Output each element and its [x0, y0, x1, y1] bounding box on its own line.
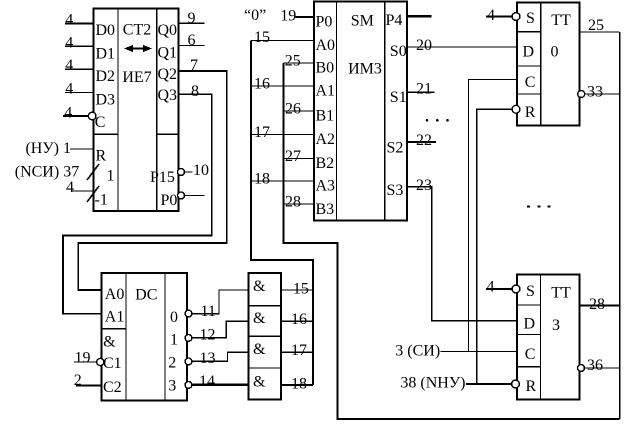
svg-text:P15: P15 — [150, 169, 175, 186]
svg-text:P0: P0 — [316, 14, 333, 31]
svg-text:13: 13 — [200, 350, 216, 367]
svg-text:26: 26 — [285, 101, 301, 118]
svg-text:S2: S2 — [387, 140, 404, 157]
wire clock 3 (СИ) to TT3 C input — [441, 351, 517, 353]
pin label 15 at A0 — [254, 29, 270, 46]
svg-text:1: 1 — [170, 332, 178, 349]
pin label 15 at gate 1 — [293, 280, 309, 297]
svg-text:33: 33 — [587, 84, 603, 101]
svg-text:10: 10 — [193, 162, 209, 179]
wire counter input D0 (pin 4) — [65, 22, 93, 24]
svg-text:14: 14 — [199, 373, 215, 390]
svg-text:R: R — [525, 104, 536, 121]
svg-text:Q0: Q0 — [158, 22, 178, 39]
svg-text:12: 12 — [200, 326, 216, 343]
bus wire right-edge vertical collecting flip-flop outputs — [619, 32, 621, 419]
svg-text:4: 4 — [65, 34, 73, 51]
wire counter input D2 (pin 4) — [65, 68, 93, 70]
svg-text:4: 4 — [65, 81, 73, 98]
pin label 4 at TT3 S — [487, 278, 495, 295]
dynamic-input slash at counter -1 input — [87, 186, 99, 202]
svg-text:16: 16 — [254, 76, 270, 93]
svg-text:B1: B1 — [316, 108, 335, 125]
svg-text:D3: D3 — [96, 91, 116, 108]
adder U2 labels SM / ИМ3 — [348, 12, 382, 77]
decoder output 2 bubble and wire (pin 13) to AND gate 3 — [185, 352, 248, 364]
pin label 36 — [587, 357, 603, 374]
wire adder input A2 (pin 17) — [251, 134, 314, 136]
svg-text:C2: C2 — [103, 379, 122, 396]
svg-text:P4: P4 — [386, 12, 403, 29]
svg-text:C: C — [525, 74, 536, 91]
wire adder input A1 (pin 16) — [251, 85, 314, 87]
svg-text:11: 11 — [201, 303, 216, 320]
wire counter input D3 (pin 4) — [65, 92, 93, 94]
wire AND gate 4 output (pin 18) — [281, 384, 313, 386]
decoder output 0 bubble and wire (pin 11) to AND gate 1 — [185, 290, 248, 317]
svg-text:6: 6 — [188, 32, 196, 49]
wire counter output Q3 (pin 8) routed to decoder input A0 — [63, 94, 212, 313]
svg-text:3 (СИ): 3 (СИ) — [395, 343, 440, 360]
counter U1 СТ2/ИЕ7 block body — [93, 8, 178, 211]
wire adder input A3 (pin 18) — [251, 180, 314, 182]
pin label 19 at C1 — [75, 349, 91, 366]
svg-text:19: 19 — [75, 349, 91, 366]
pin label 16 at A1 — [254, 76, 270, 93]
svg-text:&: & — [253, 278, 266, 295]
wire decoder input C2 (pin 2) — [76, 385, 101, 387]
wire pin 4 to TT0 S input with inversion bubble — [486, 13, 520, 21]
svg-text:A0: A0 — [105, 286, 125, 303]
pin label 33 — [587, 84, 603, 101]
wire adder input B3 (pin 28) — [284, 203, 315, 205]
flip-flop U6 TT 3 block body — [517, 274, 579, 399]
svg-text:D1: D1 — [96, 45, 116, 62]
svg-text:TT: TT — [551, 284, 571, 301]
wire counter input -1 (pin 4) — [72, 190, 93, 192]
svg-text:27: 27 — [285, 148, 301, 165]
svg-text:2: 2 — [74, 372, 82, 389]
wire adder output S1 stub (pin 21) — [407, 91, 435, 93]
svg-text:B0: B0 — [316, 60, 335, 77]
svg-text:17: 17 — [254, 124, 270, 141]
wire adder input B0 (pin 25) — [284, 62, 315, 64]
wire adder output S3 (pin 23) routed to trigger TT3 D input — [407, 187, 517, 321]
svg-text:R: R — [96, 147, 107, 164]
svg-text:ИМ3: ИМ3 — [348, 61, 382, 78]
pin label 18 at A3 — [254, 171, 270, 188]
svg-text:DC: DC — [135, 287, 157, 304]
svg-text:20: 20 — [416, 37, 432, 54]
flip-flop U6 port labels S,D,C,R — [524, 283, 537, 395]
decoder output 1 bubble and wire (pin 12) to AND gate 2 — [185, 321, 248, 341]
bus wire from AND gate outputs up to adder A inputs — [251, 41, 313, 386]
svg-text:4: 4 — [65, 11, 73, 28]
svg-text:A0: A0 — [316, 37, 336, 54]
svg-text:“0”: “0” — [244, 7, 266, 24]
wire counter input C (pin 4) with inversion bubble — [63, 112, 96, 120]
svg-text:SM: SM — [351, 12, 374, 29]
svg-text:A2: A2 — [316, 131, 336, 148]
svg-text:S: S — [526, 10, 535, 27]
wire AND gate 3 output (pin 17) — [281, 351, 313, 353]
svg-text:4: 4 — [64, 105, 72, 122]
wire reset NНУ branch to TT0 R input with inversion bubble — [477, 105, 520, 384]
svg-text:19: 19 — [280, 8, 296, 25]
svg-text:ИЕ7: ИЕ7 — [122, 69, 151, 86]
svg-text:28: 28 — [285, 194, 301, 211]
wire pin 4 to TT3 S input with inversion bubble — [486, 285, 520, 293]
wire TT3 output 28 — [580, 304, 620, 306]
svg-text:4: 4 — [66, 179, 74, 196]
wire adder input A0 (pin 15) — [251, 40, 314, 42]
pin label 28 — [589, 296, 605, 313]
svg-text:&: & — [103, 334, 116, 351]
pin label 6 — [188, 32, 196, 49]
pin label 28 at B3 — [285, 194, 301, 211]
ellipsis dots between TT0 and TT3 — [527, 206, 550, 208]
svg-text:A3: A3 — [316, 178, 336, 195]
flip-flop U5 labels TT and 0 — [551, 12, 572, 60]
pin label 16 at gate 2 — [291, 311, 307, 328]
svg-text:Q1: Q1 — [158, 45, 178, 62]
svg-text:7: 7 — [190, 57, 198, 74]
label 38 (NНУ) — [400, 375, 465, 392]
decoder output 3 bubble and wire (pin 14) to AND gate 4 — [185, 382, 248, 389]
pin label 22 — [416, 132, 432, 149]
pin label 27 at B2 — [285, 148, 301, 165]
pin label 17 at gate 3 — [291, 342, 307, 359]
counter U1 port labels D0-D3, C, R, +1, -1, Q0-Q3, P15, P0 — [95, 22, 178, 209]
svg-text:16: 16 — [291, 311, 307, 328]
svg-text:4: 4 — [487, 278, 495, 295]
svg-text:A1: A1 — [105, 309, 125, 326]
svg-text:&: & — [253, 310, 266, 327]
adder U2 port labels P0,A0,B0,A1,B1,A2,B2,A3,B3,P4,S0,S1,S2,S3 — [316, 12, 407, 218]
wire counter input R from (НУ) 1 — [70, 148, 93, 150]
svg-text:&: & — [253, 341, 266, 358]
svg-text:C1: C1 — [103, 355, 122, 372]
pin label 4 at TT0 S — [487, 7, 495, 24]
flip-flop U5 port labels S,D,C,R — [523, 10, 536, 121]
svg-text:18: 18 — [254, 171, 270, 188]
counter U1 labels СТ2 / ИЕ7 and bidirectional arrow — [122, 22, 152, 87]
svg-text:9: 9 — [188, 10, 196, 27]
pin label 20 — [416, 37, 432, 54]
wire counter output Q2 (pin 7) routed to decoder input A1 — [78, 71, 227, 290]
wire adder output S0 (pin 20) to trigger TT0 D input — [407, 46, 516, 48]
svg-text:СТ2: СТ2 — [123, 22, 151, 39]
pin label 8 — [191, 83, 199, 100]
svg-text:21: 21 — [416, 81, 432, 98]
pin label 12 — [200, 326, 216, 343]
pin label 4 at D2 — [65, 57, 73, 74]
wire AND gate 2 output (pin 16) — [281, 320, 313, 322]
wire adder carry output P4 stub — [407, 15, 432, 17]
svg-text:25: 25 — [285, 53, 301, 70]
pin label 13 — [200, 350, 216, 367]
pin label 18 at gate 4 — [291, 376, 307, 393]
adder U2 SM/ИМ3 block body — [314, 1, 407, 220]
svg-text:Q3: Q3 — [158, 87, 178, 104]
flip-flop U6 labels TT and 3 — [551, 284, 571, 334]
svg-text:C: C — [525, 346, 536, 363]
label 3 (СИ) — [395, 343, 440, 360]
wire adder output S2 stub (pin 22) — [407, 141, 436, 143]
label (NСИ) 37 — [15, 163, 79, 180]
pin label 4 at D3 — [65, 81, 73, 98]
svg-text:1: 1 — [107, 167, 115, 184]
svg-text:17: 17 — [291, 342, 307, 359]
dynamic-input slash at counter +1 input — [87, 164, 99, 180]
svg-text:23: 23 — [416, 177, 432, 194]
decoder U3 DC block body — [102, 273, 188, 400]
svg-text:(NСИ) 37: (NСИ) 37 — [15, 163, 79, 180]
svg-text:-1: -1 — [95, 192, 108, 209]
svg-text:28: 28 — [589, 296, 605, 313]
label «0» 19 — [244, 7, 296, 25]
AND gate column U4 body — [248, 273, 280, 399]
decoder U3 port labels A0,A1,&,C1,C2,0,1,2,3 — [103, 286, 178, 396]
pin label 14 — [199, 373, 215, 390]
pin label 4 at -1 input — [66, 179, 74, 196]
svg-text:15: 15 — [254, 29, 270, 46]
svg-text:4: 4 — [65, 57, 73, 74]
wire counter input D1 (pin 4) — [65, 45, 93, 47]
pin label 23 — [416, 177, 432, 194]
svg-text:B3: B3 — [316, 201, 335, 218]
pin label 17 at A2 — [254, 124, 270, 141]
svg-text:(НУ) 1: (НУ) 1 — [25, 140, 71, 157]
svg-text:P0: P0 — [161, 192, 178, 209]
svg-text:3: 3 — [168, 378, 176, 395]
TT3 inverse output bubble and wire 36 — [578, 365, 620, 372]
svg-text:2: 2 — [168, 355, 176, 372]
svg-text:&: & — [253, 374, 266, 391]
pin label 4 at D0 — [65, 11, 73, 28]
AND gate & labels — [253, 278, 266, 391]
svg-text:S: S — [526, 283, 535, 300]
svg-text:22: 22 — [416, 132, 432, 149]
counter output P15 inversion bubble and stub (pin 10) — [178, 169, 193, 176]
svg-text:D0: D0 — [96, 22, 116, 39]
svg-text:0: 0 — [170, 309, 178, 326]
wire reset 38 (NНУ) to TT3 R input with inversion bubble — [466, 380, 519, 388]
label (НУ) 1 — [25, 140, 71, 157]
pin label 2 at C2 — [74, 372, 82, 389]
svg-text:36: 36 — [587, 357, 603, 374]
svg-text:B2: B2 — [316, 155, 335, 172]
wire counter output Q1 stub (pin 6) — [179, 45, 205, 47]
pin label 7 — [190, 57, 198, 74]
pin label 21 — [416, 81, 432, 98]
wire adder input B2 (pin 27) — [284, 158, 315, 160]
svg-text:R: R — [526, 378, 537, 395]
decoder U3 label DC — [135, 287, 157, 304]
pin label 25 — [588, 17, 604, 34]
svg-text:25: 25 — [588, 17, 604, 34]
svg-text:S1: S1 — [390, 89, 407, 106]
svg-text:4: 4 — [487, 7, 495, 24]
svg-text:0: 0 — [551, 44, 559, 61]
wire constant «0» (pin 19) to adder P0 input — [295, 16, 314, 18]
svg-text:8: 8 — [191, 83, 199, 100]
svg-text:18: 18 — [291, 376, 307, 393]
wire decoder input C1 (pin 19) with inversion bubble — [74, 358, 104, 365]
svg-text:S3: S3 — [387, 182, 404, 199]
svg-text:38 (NНУ): 38 (NНУ) — [400, 375, 465, 392]
svg-text:D2: D2 — [96, 68, 116, 85]
pin label 10 — [193, 162, 209, 179]
svg-text:A1: A1 — [316, 83, 336, 100]
pin label 9 — [188, 10, 196, 27]
wire TT0 output 25 — [580, 31, 620, 33]
svg-text:S0: S0 — [390, 43, 407, 60]
svg-text:Q2: Q2 — [158, 66, 178, 83]
flip-flop U5 TT 0 block body — [517, 3, 580, 126]
wire AND gate 1 output (pin 15) — [281, 289, 313, 291]
svg-text:3: 3 — [552, 317, 560, 334]
pin label 25 at B0 — [285, 53, 301, 70]
pin label 4 at D1 — [65, 34, 73, 51]
ellipsis dots between S1 and S2 — [426, 119, 449, 122]
pin label 11 — [201, 303, 216, 320]
wire counter output Q0 stub (pin 9) — [179, 22, 205, 24]
pin label 26 at B1 — [285, 101, 301, 118]
svg-text:D: D — [524, 316, 536, 333]
pin label 4 at C — [64, 105, 72, 122]
wire adder input B1 (pin 26) — [284, 110, 315, 112]
svg-text:D: D — [523, 44, 535, 61]
bus wire from register outputs along bottom up to adder B inputs — [284, 63, 620, 419]
counter output P0 inversion bubble and stub — [178, 192, 205, 199]
wire clock СИ branch to TT0 C input — [469, 80, 518, 352]
svg-text:15: 15 — [293, 280, 309, 297]
svg-text:TT: TT — [551, 12, 571, 29]
TT0 inverse output bubble and wire 33 — [578, 91, 620, 98]
